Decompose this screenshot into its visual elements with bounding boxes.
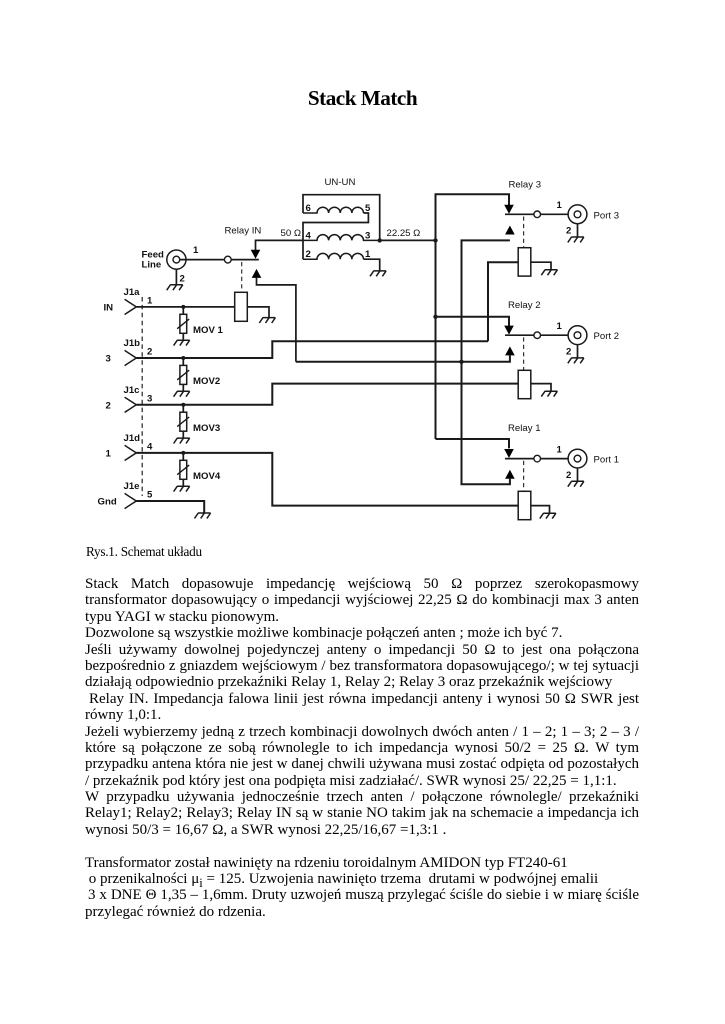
wire output to bus A xyxy=(380,239,436,241)
svg-text:3: 3 xyxy=(147,393,152,404)
ground of J1e xyxy=(195,513,211,518)
wire pivot to Port 3 xyxy=(541,213,569,215)
wire coil 2 to ground xyxy=(531,384,551,392)
svg-text:3: 3 xyxy=(106,354,111,365)
relay Relay 3 NO contact arrow (down) xyxy=(504,205,514,214)
connector Port 1 xyxy=(568,449,587,468)
svg-text:2: 2 xyxy=(180,274,185,285)
wire relay IN NO throw to transformer pin 4 (50 ohm line) xyxy=(256,240,304,250)
svg-text:2: 2 xyxy=(566,226,571,237)
wire Feed Line pin 2 to ground xyxy=(175,269,177,285)
ground of Port 1 xyxy=(568,481,584,486)
svg-text:2: 2 xyxy=(106,400,111,411)
ground of Feed Line xyxy=(167,285,183,290)
varistor MOV2 xyxy=(177,356,189,391)
relay Relay 1 NC contact arrow (up) xyxy=(505,470,515,479)
relay Relay IN NO contact arrow (down) xyxy=(251,250,261,259)
svg-text:J1d: J1d xyxy=(124,433,141,444)
wire transformer pin 6 wrap to output node (top loop) xyxy=(303,195,380,241)
pin 2 wire of Port 3 xyxy=(577,224,579,237)
svg-text:2: 2 xyxy=(566,346,571,357)
relay Relay 2 NO contact arrow (down) xyxy=(504,326,514,335)
wire bus A branch to Relay 2 xyxy=(436,317,510,326)
svg-text:1: 1 xyxy=(193,245,199,256)
svg-text:UN-UN: UN-UN xyxy=(325,177,356,188)
svg-text:MOV3: MOV3 xyxy=(193,423,220,434)
wire J1d (antenna 1) to Relay 1 coil xyxy=(136,453,518,506)
svg-text:Gnd: Gnd xyxy=(98,497,117,508)
relay Relay 2 actuation dashed link xyxy=(523,337,525,370)
relay Relay IN NC contact arrow (up) xyxy=(252,269,262,278)
svg-text:Line: Line xyxy=(142,259,162,270)
relay Relay 1 coil xyxy=(518,491,531,519)
connector pin J1b xyxy=(125,350,137,365)
svg-text:IN: IN xyxy=(104,303,114,314)
svg-text:Port 2: Port 2 xyxy=(594,331,620,342)
svg-text:Relay 2: Relay 2 xyxy=(508,300,541,311)
ground of Port 3 xyxy=(568,237,584,242)
figure caption xyxy=(86,545,202,558)
relay Relay 2 common contact wire xyxy=(505,334,534,336)
svg-text:1: 1 xyxy=(557,321,563,332)
svg-text:1: 1 xyxy=(147,296,153,307)
svg-text:Port 1: Port 1 xyxy=(594,455,620,466)
wire J1a to relay IN coil xyxy=(136,306,234,308)
wire bus A vertical (22.25 ohm to relays) xyxy=(436,194,510,439)
relay Relay 1 NO contact arrow (down) xyxy=(504,449,514,458)
svg-text:J1c: J1c xyxy=(124,385,141,396)
relay Relay 1 actuation dashed link xyxy=(523,461,525,492)
wire relay IN coil to ground xyxy=(247,307,269,318)
ground of MOV4 xyxy=(174,486,190,491)
relay Relay 3 NC contact arrow (up) xyxy=(505,226,515,235)
wire bus B vertical (NC chain) xyxy=(462,240,510,484)
svg-text:MOV4: MOV4 xyxy=(193,471,221,482)
ground of transformer pin 1 xyxy=(370,271,386,276)
wire NC bus segment to Relay 2 up arrow xyxy=(296,355,510,361)
connector Port 2 xyxy=(568,326,587,345)
wire J1e to ground xyxy=(136,501,204,513)
svg-text:1: 1 xyxy=(106,449,112,460)
svg-text:Relay 3: Relay 3 xyxy=(509,180,542,191)
wire pivot to Port 2 xyxy=(541,334,569,336)
ground of Relay 2 coil xyxy=(541,391,557,396)
svg-text:Port 3: Port 3 xyxy=(594,210,620,221)
connector Port 3 xyxy=(568,205,587,224)
wire coil 3 to ground xyxy=(531,262,551,270)
connector Feed Line xyxy=(167,250,186,269)
relay Relay 2 NC contact arrow (up) xyxy=(505,346,515,355)
ground of Relay IN coil xyxy=(259,318,275,323)
ground of MOV1 xyxy=(174,340,190,345)
relay Relay 3 common contact wire xyxy=(505,213,534,215)
relay Relay IN contact pivot xyxy=(224,256,231,263)
wire J1b (antenna 3) to Relay 3 coil xyxy=(136,341,488,358)
svg-text:2: 2 xyxy=(306,249,311,260)
transformer UN-UN winding 4-3 (middle) xyxy=(303,235,380,241)
ground of MOV2 xyxy=(174,391,190,396)
svg-text:J1a: J1a xyxy=(124,287,141,298)
wire pivot to Port 1 xyxy=(541,458,569,460)
ground of Port 2 xyxy=(568,358,584,363)
ground of Relay 3 coil xyxy=(541,270,557,275)
ground of Relay 1 coil xyxy=(540,513,556,518)
svg-text:50 Ω: 50 Ω xyxy=(280,228,301,239)
svg-text:3: 3 xyxy=(365,230,370,241)
node output 22.25 ohm junction xyxy=(378,238,382,242)
svg-text:1: 1 xyxy=(557,444,563,455)
svg-text:5: 5 xyxy=(147,490,153,501)
relay Relay IN coil xyxy=(235,292,248,321)
body text xyxy=(85,576,639,920)
svg-text:4: 4 xyxy=(306,230,312,241)
relay Relay 3 coil xyxy=(518,248,531,276)
relay Relay IN common contact wire xyxy=(231,259,259,261)
wire coil 1 to ground xyxy=(531,506,550,514)
connector J1 body dashed line xyxy=(141,297,143,496)
relay Relay IN actuation dashed link xyxy=(241,262,243,292)
node bus A / relay 2 branch xyxy=(433,315,437,319)
varistor MOV4 xyxy=(177,451,189,486)
svg-text:4: 4 xyxy=(147,442,153,453)
relay Relay 1 common contact wire xyxy=(505,458,534,460)
relay Relay 2 coil xyxy=(518,370,531,398)
relay Relay 2 contact pivot xyxy=(534,332,541,339)
wire Relay 3 coil to J1b control line xyxy=(488,262,518,341)
transformer UN-UN winding 2-1 (bottom) xyxy=(303,253,364,259)
pin 2 wire of Port 1 xyxy=(577,468,579,481)
ground of MOV3 xyxy=(174,438,190,443)
varistor MOV3 xyxy=(177,403,189,438)
connector pin J1a xyxy=(125,299,137,314)
wire transformer pin 1 to ground xyxy=(364,259,380,271)
wire Feed Line pin 1 to relay IN pivot xyxy=(180,259,225,261)
svg-text:Relay 1: Relay 1 xyxy=(508,423,541,434)
svg-text:J1b: J1b xyxy=(124,338,141,349)
svg-text:22.25 Ω: 22.25 Ω xyxy=(387,228,421,239)
svg-text:MOV 1: MOV 1 xyxy=(193,325,224,336)
connector pin J1c xyxy=(125,397,137,412)
svg-text:1: 1 xyxy=(557,200,563,211)
svg-text:J1e: J1e xyxy=(124,481,140,492)
transformer UN-UN winding 6-5 (top) xyxy=(303,207,364,213)
pin 2 wire of Port 2 xyxy=(577,345,579,358)
relay Relay 3 actuation dashed link xyxy=(523,217,525,248)
wire relay IN NC throw to NC bus xyxy=(257,278,296,362)
svg-text:MOV2: MOV2 xyxy=(193,376,220,387)
svg-text:2: 2 xyxy=(147,347,152,358)
wire bus A branch to Relay 1 xyxy=(436,439,510,448)
relay Relay 3 contact pivot xyxy=(534,211,541,218)
svg-text:2: 2 xyxy=(566,470,571,481)
svg-text:Relay IN: Relay IN xyxy=(225,226,262,237)
wire J1c (antenna 2) to Relay 2 coil xyxy=(136,384,518,405)
title xyxy=(0,88,725,109)
connector pin J1e xyxy=(125,493,137,508)
node bus B / relay 2 NC xyxy=(459,360,463,364)
wire transformer pin 5 to pins 4/2 (series jog) xyxy=(303,213,368,259)
svg-text:6: 6 xyxy=(306,203,311,214)
varistor MOV1 xyxy=(177,305,189,340)
connector pin J1d xyxy=(125,445,137,460)
node bus A / output xyxy=(433,238,437,242)
relay Relay 1 contact pivot xyxy=(534,455,541,462)
